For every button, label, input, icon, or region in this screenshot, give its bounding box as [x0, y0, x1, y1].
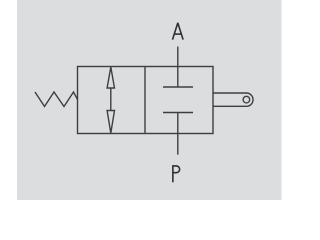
arrow shaft (left position, double-headed)	[110, 88, 112, 112]
gray canvas panel	[17, 0, 282, 200]
blocked port P bar	[163, 112, 193, 114]
blocked port A bar	[163, 86, 193, 88]
arrowhead down	[107, 111, 114, 134]
arrowhead up	[107, 67, 114, 88]
label A (drawn as path)	[173, 23, 184, 40]
return spring	[35, 92, 78, 107]
roller circle	[243, 96, 250, 103]
port A connection line	[177, 47, 179, 88]
plunger/roller actuator stadium	[213, 93, 253, 106]
port P connection line	[177, 113, 179, 155]
label P (drawn as path)	[173, 165, 180, 182]
position divider line	[144, 67, 146, 134]
valve body outline (2-position box)	[78, 67, 214, 134]
